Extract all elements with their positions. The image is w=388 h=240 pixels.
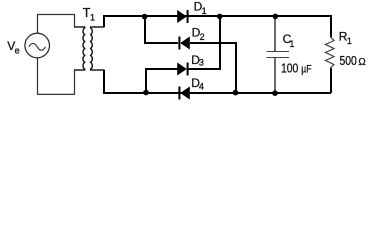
svg-text:4: 4 (199, 82, 204, 92)
svg-text:e: e (15, 45, 20, 55)
svg-text:µF: µF (301, 63, 311, 75)
svg-text:1: 1 (347, 36, 352, 46)
svg-text:2: 2 (200, 32, 205, 42)
svg-text:Ω: Ω (358, 57, 365, 68)
svg-text:100: 100 (281, 61, 299, 75)
svg-text:1: 1 (90, 13, 95, 23)
svg-text:3: 3 (199, 58, 204, 68)
svg-text:1: 1 (289, 39, 294, 49)
svg-text:1: 1 (202, 6, 207, 16)
svg-text:500: 500 (340, 54, 358, 68)
